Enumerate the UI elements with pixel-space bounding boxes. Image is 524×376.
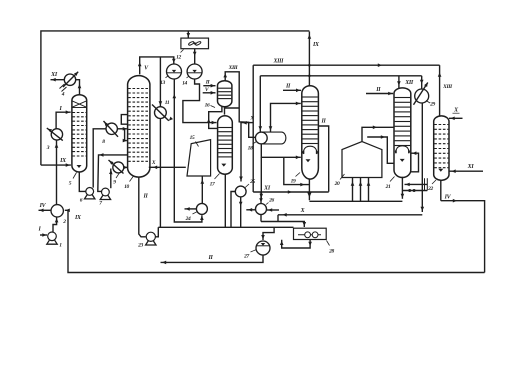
column 17 bbox=[218, 116, 233, 174]
wire pump 1 discharge to mixer 2 bbox=[53, 218, 57, 232]
exchanger 25 bbox=[235, 186, 246, 197]
svg-text:XI: XI bbox=[263, 185, 271, 191]
air cooler 12 box bbox=[181, 38, 209, 49]
svg-text:18: 18 bbox=[248, 146, 253, 152]
heater 15 (trapezoid) bbox=[187, 140, 211, 176]
svg-text:22: 22 bbox=[427, 186, 433, 192]
node label 24 bbox=[193, 212, 197, 214]
svg-text:19: 19 bbox=[291, 178, 296, 184]
svg-text:24: 24 bbox=[185, 216, 191, 222]
wire stream II feed into column 21 bbox=[366, 93, 393, 95]
wire branch from top header down into air cooler 12 bbox=[187, 31, 189, 38]
separator 13 bbox=[167, 64, 182, 79]
wire lower header from exchanger 18 to column 21 / cooler 29 bbox=[260, 75, 421, 77]
column 10 external downcomer loop bbox=[121, 115, 127, 125]
svg-text:XIII: XIII bbox=[272, 58, 284, 64]
wire transfer line to pump 28 bbox=[261, 222, 304, 228]
wire exchanger 18 bottoms to column 19 bbox=[261, 144, 301, 157]
node bottoms mark column 19 bbox=[306, 159, 311, 162]
wire reboiler loop column 21 bbox=[411, 153, 419, 172]
node label 27 bbox=[251, 250, 257, 253]
node bottoms mark column 5 bbox=[77, 165, 82, 168]
node label 18 bbox=[253, 142, 257, 145]
vessel 16 bbox=[218, 81, 232, 107]
column 5 packing X-section bbox=[72, 107, 87, 109]
air cooler 4 bbox=[64, 74, 75, 85]
wire exchanger 25 outlet down to manifold bbox=[240, 197, 242, 227]
wire X line corner down to transfer line bbox=[277, 215, 279, 222]
wire vapor loop column 17 to vessel 16 bbox=[209, 107, 222, 129]
wire exchanger 18 vapor riser to column 19 bbox=[271, 103, 301, 131]
exchanger 24 bbox=[196, 203, 207, 214]
wire pump 28 outlet loop bbox=[282, 240, 310, 249]
svg-text:15: 15 bbox=[190, 135, 195, 141]
node label 16 bbox=[211, 106, 216, 108]
wire column 19 bottoms to furnace feed line bbox=[308, 179, 310, 201]
svg-text:29: 29 bbox=[429, 102, 435, 108]
wire pump 6 discharge riser to heater 8 bbox=[93, 129, 106, 188]
wire separator 14 bottoms with jog to column 17 feed bbox=[183, 79, 217, 123]
wire bottom return line to mixer 2, stream IX bbox=[65, 210, 485, 272]
svg-text:XII: XII bbox=[404, 80, 414, 86]
node label 17 bbox=[215, 174, 220, 180]
svg-text:28: 28 bbox=[328, 249, 334, 255]
wire stub from exchanger 25 into mixer 26 bbox=[246, 209, 255, 211]
node label 14 bbox=[187, 76, 190, 78]
svg-text:XIII: XIII bbox=[442, 84, 453, 90]
wire bypass branch to column 19 downpipe bbox=[284, 157, 309, 184]
wire cooler 11 outlet down to bottom manifold bbox=[159, 119, 161, 228]
wire column 17 overhead to junction, stream X bbox=[225, 108, 240, 115]
wire stream I inlet to pump 1 bbox=[40, 234, 47, 236]
wire stream X stub at column 22 top bbox=[449, 117, 463, 119]
svg-text:23: 23 bbox=[137, 242, 143, 248]
wire header into cooler 29 bbox=[421, 76, 423, 89]
svg-text:17: 17 bbox=[210, 181, 215, 187]
wire column 10 side stream X to heater 15 bbox=[149, 166, 186, 168]
wire pump 7 discharge to heater 9 bbox=[110, 169, 112, 189]
separator 14 bbox=[187, 64, 202, 79]
wire stream II feed into column 19 top bbox=[283, 89, 301, 91]
wire column 5 overhead to cooler 4 bbox=[76, 80, 80, 95]
heat exchanger 3 bbox=[51, 129, 62, 140]
svg-text:27: 27 bbox=[243, 254, 249, 260]
node label 12 bbox=[181, 50, 184, 53]
svg-text:10: 10 bbox=[124, 184, 129, 190]
wire column 19 side stream II to drop leg bbox=[318, 126, 328, 192]
wire separator 13 bottoms down to exchanger 24 suction bbox=[174, 79, 202, 222]
wire manifold drop to separator 27 bbox=[263, 227, 274, 240]
svg-text:2: 2 bbox=[62, 219, 66, 225]
svg-text:21: 21 bbox=[385, 184, 391, 190]
wire exchanger 18 liquid down to mixer 26 bbox=[260, 157, 262, 199]
wire pump 23 discharge to bottom manifold bbox=[155, 227, 158, 237]
mixer 2 bbox=[51, 205, 63, 217]
column 5 bbox=[72, 95, 87, 172]
pump 28 (box) bbox=[294, 228, 327, 239]
node label 25 bbox=[245, 184, 249, 188]
air cooler 12 fan blades bbox=[188, 41, 194, 46]
heat exchanger 9 bbox=[113, 162, 124, 173]
node bottoms mark column 22 bbox=[438, 169, 443, 172]
wire separator 27 bottoms return, stream II bbox=[161, 255, 264, 262]
svg-text:12: 12 bbox=[176, 54, 181, 60]
cooler 11 bbox=[155, 107, 167, 119]
node label 19 bbox=[296, 173, 301, 177]
svg-text:XIII: XIII bbox=[228, 65, 239, 71]
wire cooler 29 outlet down to stream X line bbox=[421, 103, 423, 212]
wire furnace 20 feed line bbox=[309, 200, 402, 202]
wire reflux branch down into exchanger 25 bbox=[241, 123, 249, 182]
wire furnace 20 secondary transfer line bbox=[367, 137, 393, 163]
wire mixer 2 to heater 3 riser bbox=[56, 140, 58, 204]
column 19 bbox=[302, 86, 319, 179]
node label 22 bbox=[432, 180, 436, 184]
separator 27 bbox=[256, 241, 270, 255]
furnace 20 (pentagon) bbox=[342, 142, 382, 178]
junction node dots on header bbox=[308, 64, 311, 67]
wire bottom manifold line bbox=[158, 226, 293, 228]
wire column 21 overhead riser to header, stream XII bbox=[398, 76, 400, 89]
wire XIII header drop leg to stream XI line bbox=[252, 65, 254, 192]
wire X return into mixer 26 bbox=[267, 209, 279, 211]
node label 26 bbox=[266, 203, 269, 205]
svg-text:25: 25 bbox=[249, 179, 255, 185]
wire XIII header horizontal bbox=[253, 64, 439, 66]
node bottoms mark column 17 bbox=[221, 164, 226, 167]
exchanger 18 (horizontal shell) bbox=[261, 132, 286, 144]
heat exchanger 8 bbox=[106, 123, 117, 134]
node label 21 bbox=[390, 177, 395, 182]
column 10 bbox=[128, 76, 150, 178]
wire stream XI stub into column 22 bbox=[449, 170, 483, 172]
wire air cooler 12 outlet to separator 14 bbox=[194, 49, 196, 64]
wire heater 9 outlet into column 10 bbox=[124, 166, 128, 168]
svg-text:16: 16 bbox=[205, 103, 210, 109]
node label 28 bbox=[327, 241, 330, 246]
mixer 26 bbox=[256, 204, 267, 215]
wire column 10 overhead, stream V bbox=[140, 57, 174, 75]
node label 10 bbox=[130, 176, 134, 182]
pump 1 bbox=[48, 232, 57, 241]
wire overhead branch down to cooler 11 bbox=[159, 57, 161, 107]
wire heater 3 to column 5 feed, stream I bbox=[56, 112, 71, 129]
svg-text:X: X bbox=[151, 160, 156, 166]
wire XI line feed into mixer 26 bbox=[260, 192, 262, 203]
svg-text:3: 3 bbox=[46, 145, 50, 151]
node bottoms mark column 21 bbox=[400, 159, 405, 162]
wire right border stream IV down-run bbox=[441, 201, 485, 273]
svg-text:13: 13 bbox=[160, 80, 165, 86]
wire column 17 bottoms down to manifold bbox=[224, 175, 226, 228]
wire stream XI line below column 19 bbox=[253, 191, 329, 193]
wire vessel 16 overhead stream XIII riser to header and down to exchanger 18 bbox=[225, 72, 255, 138]
wire column 22 bottoms to stream IV bbox=[440, 180, 442, 201]
column 21 bbox=[394, 88, 411, 178]
wire XIII header drop into column 22 bbox=[439, 65, 441, 115]
wire product out of exchanger 24 bbox=[185, 208, 197, 210]
wire column 5 bottoms to pump 6 bbox=[79, 172, 85, 192]
wire exchanger 25 left stub down bbox=[231, 192, 235, 228]
svg-text:11: 11 bbox=[165, 100, 170, 106]
svg-text:XI: XI bbox=[50, 72, 58, 78]
wire top border header (stream IX recycle) bbox=[41, 31, 310, 165]
wire stream V into vessel 16 bbox=[203, 92, 216, 94]
wire recycle stub into column 21 downpipe bbox=[405, 183, 428, 185]
pump 6 bbox=[86, 188, 94, 196]
svg-text:4: 4 bbox=[61, 92, 65, 98]
pump 7 bbox=[102, 188, 110, 196]
node label 13 bbox=[166, 76, 169, 78]
wire furnace 20 outlet to column 21 feed bbox=[362, 127, 394, 141]
column 19 vapor distributor arch bbox=[303, 146, 317, 154]
wire mixer 26 outlet to transfer line bbox=[260, 215, 262, 222]
wire header drop into exchanger 18 bbox=[259, 76, 261, 132]
wire column 10 side draw down to pump 7 bbox=[98, 155, 128, 192]
pump 23 bbox=[146, 232, 155, 241]
wire column 21 bottoms bbox=[401, 177, 403, 199]
wire stream X return line from cooler 29 to mixer 26 area bbox=[278, 214, 422, 216]
wire stream II into vessel 16 bbox=[203, 85, 215, 87]
svg-text:XI: XI bbox=[467, 164, 475, 170]
wire stream IX into column 5 (left border bottom run) bbox=[41, 164, 71, 166]
svg-text:20: 20 bbox=[334, 181, 340, 187]
svg-text:14: 14 bbox=[182, 80, 187, 86]
column 21 vapor distributor arch bbox=[395, 146, 409, 153]
wire column 21 bottoms cross line bbox=[402, 190, 427, 192]
wire column 10 bottoms to pump 23, stream II bbox=[139, 178, 146, 237]
column 22 bbox=[434, 116, 449, 180]
wire furnace riser tubes with arrows bbox=[352, 178, 354, 201]
wire stream IV product out of mixer 2 bbox=[39, 209, 52, 211]
node label 29 bbox=[426, 101, 430, 104]
wire heater 15 bottom to exchanger 24 bbox=[201, 176, 203, 203]
cooler 29 bbox=[415, 89, 429, 103]
wire reflux from XIII drop leg into column 17 bbox=[249, 122, 254, 124]
wire heater 8 outlet into column 10 (two nozzles) bbox=[117, 128, 127, 130]
svg-text:26: 26 bbox=[268, 198, 274, 204]
wire stream XI out of cooler 4 bbox=[51, 79, 65, 81]
node label 20 bbox=[340, 174, 345, 180]
wire riser from column 19 overhead to top header, stream IX bbox=[308, 32, 310, 86]
node label 15 bbox=[196, 142, 199, 147]
node label 5 bbox=[73, 173, 77, 179]
